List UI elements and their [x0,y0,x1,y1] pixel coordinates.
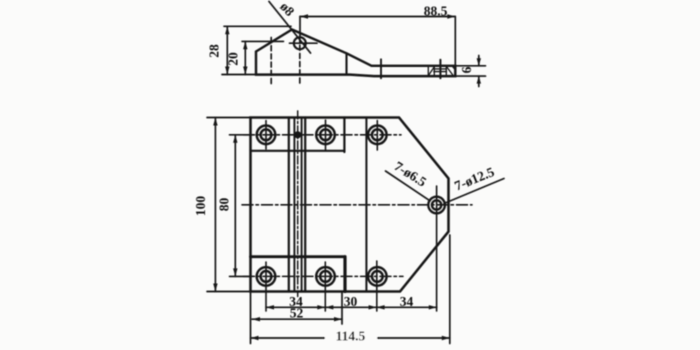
text 114.5 white backing [325,330,377,341]
arrow 34 right end [429,305,437,309]
hole 4 bottom-left [257,267,276,286]
plan view: main horizontal center line [242,204,472,206]
arrow 52 right [334,317,342,321]
svg-text:80: 80 [217,198,232,212]
dim 88.5 left extension [299,17,301,37]
leader line 7-dia12.5 [444,179,504,204]
side view: bend tick line [380,59,382,78]
dim 100 top extension [207,117,251,119]
dim 52 line [252,318,342,320]
arrow 88.5 left [300,14,308,18]
svg-text:88.5: 88.5 [424,4,448,19]
hole 4 center line / extension [265,262,267,311]
side view: hole circle [294,37,306,49]
plan view: hinge pin line c [301,118,303,292]
arrow 80 up [233,135,237,143]
hole 6 bottom-right [368,267,387,286]
plan view: bend edge line [365,118,367,292]
dim 88.5 line [300,16,455,18]
arrow 52 left [252,317,260,321]
hole 7 vertical center line / extension [436,186,438,311]
plan view: leaf top row bottom edge [251,150,345,152]
plan view: leaf rect4 right edge bold [343,257,346,292]
side view: hatch mark vertical [439,60,441,79]
svg-text:52: 52 [290,306,304,321]
dim 114.5 right extension [449,235,451,344]
plan view: bottom row center line [244,275,404,277]
arrow 20 up [243,41,247,49]
arrow 28 up [225,26,229,34]
side view: hole horizontal center line [290,42,318,44]
hole 2 center line [325,120,327,151]
svg-text:20: 20 [226,52,241,66]
arrow pair at 377 [369,305,377,309]
dim 20 extension line [242,40,284,42]
arrow 114.5 left [251,336,259,340]
dim 100 bottom extension [207,291,251,293]
hole 5 center line / extension [324,262,326,311]
hole 5 bottom-middle [316,267,335,286]
arrow 80 down [233,268,237,276]
dim 88.5 right extension [454,17,456,77]
dim 80 top extension [230,134,251,136]
svg-text:7-ø12.5: 7-ø12.5 [452,164,496,194]
side view: hatch mark N left [428,67,434,76]
arrow 28 down [225,67,229,75]
plan view: plate outline [251,118,449,292]
arrow pair at 325 [317,305,325,309]
side view: dashed center line left [270,38,272,84]
side view: hatch mark N right [446,67,455,75]
leader line dia 8 [269,2,311,54]
arrow 114.5 right [442,336,450,340]
side view: body profile outline [256,30,455,77]
dim chain 34 30 34 line [266,306,437,308]
plan view: hinge pin line b [293,118,295,292]
dim 20 line [244,41,246,74]
dim 80 bottom extension [230,275,251,277]
svg-text:28: 28 [207,44,222,58]
side view: hatch mark equals [434,69,447,72]
svg-text:34: 34 [400,294,414,309]
dim 80 line [234,135,236,277]
svg-text:6: 6 [459,66,474,73]
plan view: top row center line [244,134,402,136]
dim 6 line segments [478,56,480,87]
dim 28 line [226,26,228,74]
plan view: leaf bottom row top edge [251,255,346,258]
hole 1 top-left [257,126,276,145]
hole 3 center line [376,121,378,151]
dim 52 right extension [341,293,343,325]
dim 28 extension line [224,25,291,27]
plan view: hinge leaf line a [288,118,290,292]
dim 6 extension top [455,65,485,67]
arrow 34 left end [266,305,274,309]
hole 6 center line / extension [376,261,378,311]
arrow 100 up [213,118,217,126]
arrow 6 bottom [477,76,481,84]
dim 6 extension bottom [455,75,485,77]
arrow 88.5 right [447,14,455,18]
hole 2 top-middle [316,126,335,145]
side view: internal vertical edge [345,53,347,74]
plan view: leaf rect2 right edge [343,118,345,153]
hole 7 right vertex [428,197,445,214]
side view: base extension line [222,74,256,76]
dim left extension for 52 and 114.5 [250,293,252,344]
hinge pin dot [294,131,301,138]
svg-text:30: 30 [344,294,358,309]
svg-text:114.5: 114.5 [336,329,366,344]
svg-text:100: 100 [193,196,208,217]
dim 114.5 line [251,337,450,339]
leader line 7-dia6.5 [386,171,431,201]
dim 100 line [214,118,216,292]
arrow 100 down [213,284,217,292]
plan view: hinge leaf line d [304,118,306,292]
arrow 6 top [477,58,481,66]
hole 1 center line [265,121,267,150]
plan view: hinge center dashed line [297,111,299,297]
hole 3 top-right [368,126,387,145]
side view: dashed center line hole [299,37,301,85]
arrow 20 down [243,67,247,75]
svg-text:7-ø6.5: 7-ø6.5 [392,158,430,189]
